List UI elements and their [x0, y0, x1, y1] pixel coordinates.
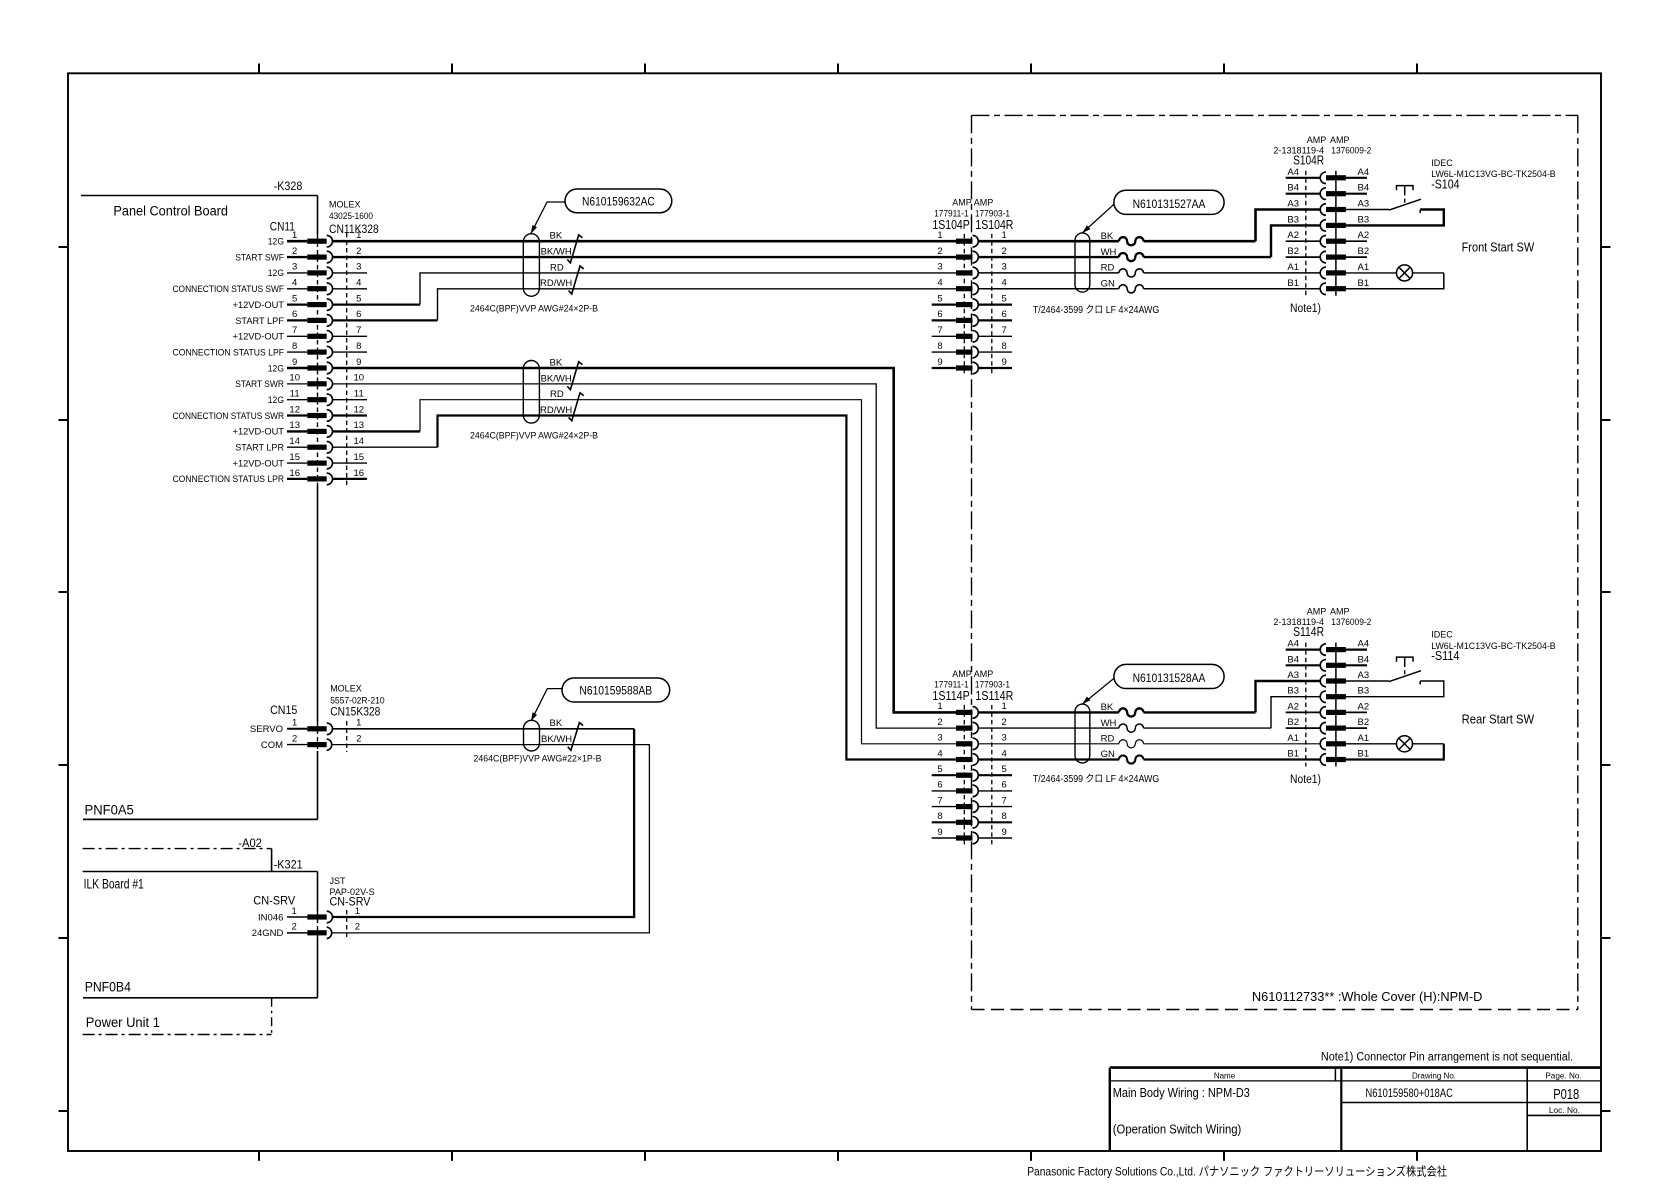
- svg-text:6: 6: [356, 309, 361, 320]
- svg-text:8: 8: [937, 811, 942, 822]
- svg-text:10: 10: [354, 373, 365, 384]
- svg-text:N610159632AC: N610159632AC: [582, 194, 655, 208]
- svg-text:N610131527AA: N610131527AA: [1133, 197, 1206, 211]
- connector CN11 pin 6 (START LPF): [235, 309, 361, 327]
- svg-text:START LPR: START LPR: [235, 443, 284, 454]
- svg-text:B1: B1: [1358, 278, 1370, 289]
- board Power Unit 1 boundary (dash-dot): [83, 998, 272, 1035]
- svg-text:RD: RD: [1101, 734, 1115, 745]
- label IDEC part for -S104: [1431, 158, 1556, 192]
- wire CN11K328 pin6 jog up to RD/WH row: [333, 289, 957, 321]
- svg-text:AMP: AMP: [1307, 135, 1327, 145]
- connector S114R housing line (dashed): [1305, 643, 1307, 767]
- svg-text:9: 9: [937, 357, 942, 368]
- wire CN15 pin1 BK to CN-SRV pin1: [333, 729, 635, 917]
- svg-text:3: 3: [356, 262, 361, 273]
- svg-text:2: 2: [356, 246, 361, 257]
- wire CN11K328 pin5 jog up to RD row: [333, 273, 957, 305]
- svg-text:2: 2: [355, 922, 360, 933]
- svg-text:Panel Control Board: Panel Control Board: [113, 203, 228, 218]
- connector S104R pin A4: [1286, 167, 1369, 184]
- svg-text:+12VD-OUT: +12VD-OUT: [233, 458, 285, 469]
- svg-text:+12VD-OUT: +12VD-OUT: [233, 332, 285, 343]
- cable label bubble N610159632AC: [565, 189, 672, 213]
- svg-text:4: 4: [937, 278, 942, 289]
- svg-text:CN-SRV: CN-SRV: [253, 894, 295, 908]
- svg-text:24GND: 24GND: [252, 928, 284, 939]
- title block: [1110, 1068, 1601, 1151]
- connector S114R pin A3: [1287, 670, 1369, 687]
- connector 1S104P/1S104R pin 4: [937, 278, 1006, 295]
- svg-text:3: 3: [1002, 733, 1007, 744]
- connector CN11 pin 16 (CONNECTION STATUS LPR): [173, 468, 365, 485]
- twist marks cable 2: [567, 362, 582, 390]
- svg-text:B3: B3: [1358, 686, 1370, 697]
- svg-text:1S104R: 1S104R: [975, 218, 1013, 232]
- svg-text:7: 7: [292, 325, 297, 336]
- connector S104R pin B2: [1286, 246, 1369, 263]
- wire stub CN11K328 pin16: [333, 478, 368, 480]
- svg-text:BK: BK: [550, 718, 563, 729]
- svg-text:3: 3: [292, 262, 297, 273]
- switch -S104 pushbutton contact: [1346, 186, 1444, 226]
- svg-text:JST: JST: [330, 876, 347, 886]
- svg-text:START SWR: START SWR: [235, 379, 284, 390]
- connector S114R pin B4: [1286, 654, 1369, 671]
- svg-text:13: 13: [289, 420, 300, 431]
- svg-text:-A02: -A02: [238, 836, 262, 850]
- svg-text:6: 6: [937, 780, 942, 791]
- connector CN-SRV pin 2 (24GND): [252, 922, 360, 940]
- svg-text:Front Start SW: Front Start SW: [1462, 241, 1535, 255]
- svg-text:2464C(BPF)VVP AWG#22×1P-B: 2464C(BPF)VVP AWG#22×1P-B: [474, 754, 602, 765]
- connector CN11 / CN11K328 titles: [270, 200, 379, 236]
- svg-text:1: 1: [937, 701, 942, 712]
- wire color labels cable 1: [540, 231, 572, 290]
- svg-text:START LPF: START LPF: [235, 316, 284, 327]
- svg-text:4: 4: [356, 278, 361, 289]
- svg-text:4: 4: [292, 278, 297, 289]
- svg-text:12G: 12G: [268, 363, 284, 374]
- wire BK to switch A3: [979, 210, 1321, 242]
- svg-text:RD/WH: RD/WH: [540, 278, 572, 289]
- svg-text:2: 2: [356, 733, 361, 744]
- leader line: [1082, 678, 1114, 704]
- svg-text:PNF0B4: PNF0B4: [85, 978, 131, 994]
- cable label bubble N610159588AB: [562, 678, 670, 702]
- svg-text:P018: P018: [1553, 1086, 1579, 1103]
- wire CN11K328 pin13 jog up and down to 1S114P pin3: [333, 400, 957, 744]
- connector 1S114P/1S114R pin 2: [937, 717, 1006, 734]
- svg-text:CN-SRV: CN-SRV: [330, 895, 371, 909]
- svg-text:A1: A1: [1287, 262, 1299, 273]
- svg-text:2: 2: [292, 733, 297, 744]
- svg-text:B2: B2: [1358, 717, 1370, 728]
- connector 1S114P/1S114R pin 5: [932, 764, 1012, 781]
- svg-text:2: 2: [1002, 717, 1007, 728]
- svg-text:-S114: -S114: [1431, 649, 1459, 663]
- svg-text:1376009-2: 1376009-2: [1331, 617, 1371, 627]
- connector 1S114P/1S114R titles: [932, 669, 1013, 703]
- svg-text:CN11K328: CN11K328: [329, 222, 379, 236]
- svg-text:1S114R: 1S114R: [975, 689, 1013, 703]
- switch -S114 pushbutton contact: [1346, 657, 1444, 697]
- connector S104R pin B1: [1287, 278, 1369, 295]
- svg-text:+12VD-OUT: +12VD-OUT: [233, 300, 285, 311]
- lamp inside -S104: [1346, 265, 1444, 289]
- label IDEC part for -S114: [1431, 630, 1556, 664]
- svg-text:12: 12: [289, 404, 300, 415]
- svg-text:PNF0A5: PNF0A5: [85, 802, 134, 818]
- svg-text:A3: A3: [1287, 199, 1299, 210]
- connector CN-SRV receptacle housing line: [346, 910, 348, 939]
- cable sheath oval cable N610131527AA: [1075, 233, 1090, 292]
- connector 1S114R housing line: [991, 705, 993, 846]
- svg-text:S114R: S114R: [1293, 625, 1324, 639]
- cable label bubble N610131527AA: [1114, 190, 1224, 214]
- svg-text:5: 5: [1002, 764, 1007, 775]
- board Panel Control Board outline: [81, 196, 318, 820]
- twist mark cable 3: [568, 723, 583, 751]
- connector CN11 pin 12 (CONNECTION STATUS SWR): [173, 404, 365, 422]
- connector CN11 pin 13 (+12VD-OUT): [233, 420, 365, 438]
- connector S104R pin B4: [1286, 183, 1369, 200]
- svg-text:9: 9: [937, 827, 942, 838]
- connector 1S114P/1S114R pin 4: [937, 748, 1006, 765]
- connector CN-SRV titles: [253, 876, 374, 909]
- connector 1S114P/1S114R pin 6: [932, 780, 1012, 797]
- wire stub CN11K328 pin4: [333, 288, 368, 290]
- svg-text:3: 3: [937, 733, 942, 744]
- svg-text:B4: B4: [1358, 654, 1370, 665]
- wire RD to lamp A1: [979, 272, 1321, 274]
- wire stub CN11K328 pin11: [333, 399, 368, 401]
- svg-text:1: 1: [355, 906, 360, 917]
- wire BK to switch A3: [979, 681, 1321, 712]
- svg-text:10: 10: [289, 373, 300, 384]
- svg-text:B1: B1: [1287, 749, 1299, 760]
- wire stub CN11K328 pin15: [333, 462, 368, 464]
- svg-text:5: 5: [356, 293, 361, 304]
- svg-text:2: 2: [1002, 246, 1007, 257]
- svg-text:Page. No.: Page. No.: [1545, 1071, 1581, 1080]
- connector 1S104P/1S104R titles: [932, 198, 1013, 232]
- cable sheath oval cable 2: [523, 361, 539, 424]
- svg-text:2464C(BPF)VVP AWG#24×2P-B: 2464C(BPF)VVP AWG#24×2P-B: [470, 430, 598, 441]
- svg-text:IDEC: IDEC: [1431, 158, 1453, 168]
- connector 1S104P/1S104R pin 6: [932, 309, 1012, 326]
- connector CN-SRV pin 1 (IN046): [258, 906, 360, 924]
- svg-text:5: 5: [937, 764, 942, 775]
- wire GN to lamp B1: [979, 288, 1321, 290]
- svg-text:Loc. No.: Loc. No.: [1549, 1106, 1580, 1115]
- connector CN11 pin 14 (START LPR): [235, 436, 364, 454]
- svg-text:A2: A2: [1358, 230, 1370, 241]
- svg-text:2: 2: [292, 246, 297, 257]
- svg-text:7: 7: [356, 325, 361, 336]
- svg-text:ILK Board #1: ILK Board #1: [84, 876, 144, 891]
- svg-text:177911-1: 177911-1: [934, 680, 969, 690]
- svg-text:A3: A3: [1358, 199, 1370, 210]
- svg-text:A3: A3: [1358, 670, 1370, 681]
- connector 1S104R housing line: [991, 234, 993, 376]
- svg-text:12G: 12G: [268, 268, 284, 279]
- svg-text:4: 4: [1002, 748, 1007, 759]
- svg-text:IDEC: IDEC: [1431, 630, 1453, 640]
- svg-text:B3: B3: [1358, 214, 1370, 225]
- connector CN11 pin 2 (START SWF): [235, 246, 361, 264]
- svg-text:RD/WH: RD/WH: [540, 405, 572, 416]
- svg-text:1: 1: [291, 906, 296, 917]
- svg-text:Drawing No.: Drawing No.: [1412, 1071, 1456, 1080]
- svg-text:B4: B4: [1358, 183, 1370, 194]
- svg-text:8: 8: [1002, 341, 1007, 352]
- wire CN11K328 pin14 jog up and down to 1S114P pin4: [333, 416, 957, 760]
- svg-text:9: 9: [292, 357, 297, 368]
- enclosure Whole Cover boundary (dash-dot): [972, 115, 1578, 1009]
- wire stub CN11K328 pin12: [333, 414, 368, 416]
- svg-text:B2: B2: [1358, 246, 1370, 257]
- svg-text:B3: B3: [1287, 686, 1299, 697]
- connector CN15 pin 1 (SERVO): [250, 718, 362, 736]
- connector S114R titles: [1273, 607, 1371, 640]
- svg-text:15: 15: [289, 452, 300, 463]
- coil marks: [1119, 708, 1144, 716]
- svg-text:2: 2: [937, 717, 942, 728]
- wire CN11K328 pin10 BK/WH down to 1S114P pin2: [333, 384, 957, 728]
- svg-text:14: 14: [289, 436, 300, 447]
- svg-text:B4: B4: [1287, 654, 1299, 665]
- svg-text:B3: B3: [1287, 214, 1299, 225]
- svg-text:-K328: -K328: [274, 179, 303, 193]
- svg-text:2: 2: [291, 922, 296, 933]
- connector S114R pin A2: [1286, 701, 1369, 718]
- svg-text:13: 13: [354, 420, 365, 431]
- svg-text:B4: B4: [1287, 183, 1299, 194]
- svg-text:9: 9: [1002, 827, 1007, 838]
- svg-text:1: 1: [292, 718, 297, 729]
- connector S114R pin B2: [1286, 717, 1369, 734]
- svg-text:CONNECTION STATUS LPR: CONNECTION STATUS LPR: [173, 474, 285, 485]
- svg-text:11: 11: [290, 389, 300, 400]
- svg-text:Note1) Connector Pin arrangeme: Note1) Connector Pin arrangement is not …: [1321, 1051, 1573, 1063]
- svg-text:A4: A4: [1358, 639, 1370, 650]
- svg-text:B1: B1: [1358, 749, 1370, 760]
- board ILK Board #1 outline: [83, 872, 318, 998]
- svg-text:A4: A4: [1358, 167, 1370, 178]
- svg-text:14: 14: [354, 436, 365, 447]
- connector 1S104P/1S104R pin 3: [937, 262, 1006, 279]
- connector CN15K328 housing line: [346, 721, 348, 752]
- wire stub CN11K328 pin7: [333, 335, 368, 337]
- svg-text:3: 3: [937, 262, 942, 273]
- svg-text:9: 9: [356, 357, 361, 368]
- connector 1S104P housing line: [963, 234, 965, 376]
- leader line to cable 3: [531, 689, 562, 722]
- svg-text:IN046: IN046: [258, 912, 283, 923]
- svg-text:3: 3: [1002, 262, 1007, 273]
- svg-text:Panasonic Factory Solutions Co: Panasonic Factory Solutions Co.,Ltd. パナソ…: [1027, 1163, 1447, 1178]
- svg-text:MOLEX: MOLEX: [329, 200, 361, 210]
- svg-text:8: 8: [1002, 811, 1007, 822]
- connector 1S114P/1S114R pin 1: [937, 701, 1006, 718]
- wire color labels BK WH RD GN: [1101, 702, 1117, 760]
- leader line to cable 1: [531, 202, 565, 234]
- svg-text:6: 6: [937, 309, 942, 320]
- connector CN15 housing line (board side): [317, 722, 319, 751]
- svg-text:1: 1: [292, 230, 297, 241]
- svg-text:4: 4: [1002, 278, 1007, 289]
- wire color labels cable 3: [541, 718, 572, 745]
- wire WH to switch B3: [979, 225, 1321, 257]
- cable label bubble N610131528AA: [1114, 664, 1224, 688]
- connector 1S114P/1S114R pin 8: [932, 811, 1012, 828]
- connector S104R pin A3: [1287, 199, 1369, 216]
- svg-text:7: 7: [1002, 795, 1007, 806]
- svg-text:BK: BK: [550, 231, 563, 242]
- svg-text:MOLEX: MOLEX: [330, 684, 362, 694]
- svg-text:5: 5: [292, 293, 297, 304]
- svg-text:AMP: AMP: [952, 198, 972, 208]
- svg-text:11: 11: [354, 389, 364, 400]
- connector 1S114P/1S114R pin 7: [932, 795, 1012, 812]
- svg-text:CN15: CN15: [270, 703, 297, 717]
- svg-text:2: 2: [937, 246, 942, 257]
- twist marks cable 1: [567, 235, 582, 263]
- connector CN11 pin 4 (CONNECTION STATUS SWF): [173, 278, 362, 296]
- wire CN15 pin2 BK/WH to CN-SRV pin2: [333, 745, 650, 933]
- svg-text:Main Body Wiring : NPM-D3: Main Body Wiring : NPM-D3: [1113, 1086, 1250, 1100]
- svg-text:A1: A1: [1287, 733, 1299, 744]
- svg-text:6: 6: [1002, 780, 1007, 791]
- leader line: [1082, 204, 1114, 233]
- svg-text:7: 7: [1002, 325, 1007, 336]
- svg-text:N610112733** :Whole Cover (H):: N610112733** :Whole Cover (H):NPM-D: [1252, 989, 1483, 1004]
- svg-text:AMP: AMP: [1330, 607, 1350, 617]
- svg-text:1: 1: [937, 230, 942, 241]
- svg-text:Note1): Note1): [1290, 303, 1321, 315]
- connector 1S104P/1S104R pin 5: [932, 293, 1012, 310]
- svg-text:5: 5: [1002, 293, 1007, 304]
- svg-text:AMP: AMP: [1307, 607, 1327, 617]
- connector 1S104P/1S104R pin 9: [932, 357, 1012, 374]
- svg-text:B2: B2: [1287, 717, 1299, 728]
- svg-text:A2: A2: [1287, 230, 1299, 241]
- svg-text:A2: A2: [1358, 701, 1370, 712]
- wire GN to lamp B1: [979, 758, 1321, 760]
- svg-text:CONNECTION STATUS SWR: CONNECTION STATUS SWR: [173, 411, 285, 422]
- svg-text:CONNECTION STATUS LPF: CONNECTION STATUS LPF: [173, 347, 285, 358]
- svg-text:16: 16: [354, 468, 365, 479]
- svg-text:Rear Start SW: Rear Start SW: [1462, 712, 1535, 726]
- svg-text:SERVO: SERVO: [250, 724, 283, 735]
- svg-text:A2: A2: [1287, 701, 1299, 712]
- connector S104R housing line (dashed): [1305, 171, 1307, 296]
- svg-text:BK: BK: [550, 357, 563, 368]
- svg-text:6: 6: [292, 309, 297, 320]
- connector S114R pin B1: [1287, 749, 1369, 766]
- svg-text:12G: 12G: [268, 395, 284, 406]
- connector CN11 pin 7 (+12VD-OUT): [233, 325, 362, 343]
- wire color labels cable 2: [540, 357, 572, 416]
- svg-text:BK/WH: BK/WH: [541, 373, 572, 384]
- svg-text:Power Unit 1: Power Unit 1: [86, 1014, 160, 1030]
- connector 1S114P/1S114R pin 9: [932, 827, 1012, 844]
- svg-text:4: 4: [937, 748, 942, 759]
- cable sheath oval cable N610159588AB: [524, 720, 540, 751]
- connector CN11 pin 8 (CONNECTION STATUS LPF): [173, 341, 362, 359]
- svg-text:12: 12: [354, 404, 365, 415]
- svg-text:2464C(BPF)VVP AWG#24×2P-B: 2464C(BPF)VVP AWG#24×2P-B: [470, 304, 598, 315]
- connector S104R pin B3: [1287, 214, 1369, 231]
- connector CN-SRV housing line (board side): [317, 911, 319, 938]
- connector 1S104P/1S104R pin 1: [937, 230, 1006, 247]
- svg-text:43025-1600: 43025-1600: [329, 211, 373, 221]
- connector 1S114P housing line: [963, 705, 965, 846]
- svg-text:T/2464-3599 クロ LF 4×24AWG: T/2464-3599 クロ LF 4×24AWG: [1033, 773, 1160, 785]
- wire WH to switch B3: [979, 697, 1321, 728]
- svg-text:Note1): Note1): [1290, 774, 1321, 786]
- connector 1S114P/1S114R pin 3: [937, 733, 1006, 750]
- svg-text:1376009-2: 1376009-2: [1331, 145, 1371, 155]
- svg-text:RD: RD: [1101, 263, 1115, 274]
- svg-text:B2: B2: [1287, 246, 1299, 257]
- svg-text:RD: RD: [550, 389, 564, 400]
- svg-text:T/2464-3599 クロ LF 4×24AWG: T/2464-3599 クロ LF 4×24AWG: [1033, 304, 1160, 316]
- svg-text:1: 1: [1002, 230, 1007, 241]
- wire color labels BK WH RD GN: [1101, 231, 1117, 290]
- svg-text:N610159588AB: N610159588AB: [579, 683, 652, 697]
- svg-text:A1: A1: [1358, 262, 1370, 273]
- svg-text:N610159580+018AC: N610159580+018AC: [1366, 1086, 1454, 1100]
- svg-text:177903-1: 177903-1: [975, 208, 1010, 218]
- connector S104R pin A1: [1287, 262, 1369, 279]
- wire CN11K328 pin9 BK down to 1S114P pin1: [333, 368, 957, 712]
- connector S104R titles: [1273, 135, 1371, 168]
- svg-text:8: 8: [292, 341, 297, 352]
- svg-text:A3: A3: [1287, 670, 1299, 681]
- connector CN15 / CN15K328 titles: [270, 684, 385, 719]
- board -A02 boundary (dash-dot): [83, 849, 272, 872]
- connector CN11 pin 3 (12G): [268, 262, 362, 280]
- connector S104R body line (solid): [1335, 171, 1337, 296]
- svg-text:16: 16: [289, 468, 300, 479]
- svg-text:A1: A1: [1358, 733, 1370, 744]
- connector 1S104P/1S104R pin 8: [932, 341, 1012, 358]
- svg-text:AMP: AMP: [1330, 135, 1350, 145]
- svg-text:+12VD-OUT: +12VD-OUT: [233, 427, 285, 438]
- svg-text:B1: B1: [1287, 278, 1299, 289]
- connector 1S104P/1S104R pin 2: [937, 246, 1006, 263]
- svg-text:WH: WH: [1101, 718, 1117, 729]
- svg-text:-K321: -K321: [274, 857, 303, 871]
- svg-text:15: 15: [354, 452, 365, 463]
- connector S114R pin A1: [1287, 733, 1369, 750]
- connector CN11 pin 9 (12G): [268, 357, 362, 375]
- svg-text:COM: COM: [261, 740, 283, 751]
- svg-text:BK/WH: BK/WH: [541, 734, 572, 745]
- svg-text:AMP: AMP: [974, 198, 994, 208]
- wire stub CN11K328 pin3: [333, 272, 368, 274]
- svg-text:AMP: AMP: [974, 669, 994, 679]
- wire RD to lamp A1: [979, 743, 1321, 745]
- svg-text:Name: Name: [1214, 1071, 1236, 1080]
- svg-text:CONNECTION STATUS SWF: CONNECTION STATUS SWF: [173, 284, 285, 295]
- svg-text:8: 8: [356, 341, 361, 352]
- wire CN11K328 pin1 BK to 1S104P pin1: [333, 240, 957, 243]
- cable sheath oval cable N610131528AA: [1075, 704, 1090, 763]
- svg-text:7: 7: [937, 795, 942, 806]
